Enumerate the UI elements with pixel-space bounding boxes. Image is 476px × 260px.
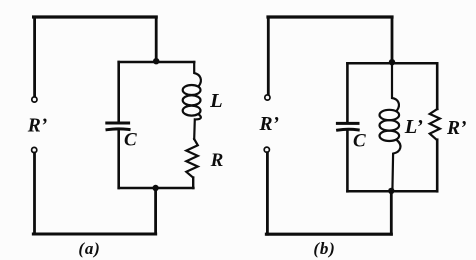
inductor L (a): bottom hook and exit wire [194,115,201,139]
inductor L (a): entry stub and top hook [194,62,201,86]
capacitor C bottom plate (b) [338,128,359,132]
terminal: lower open circle (a) [32,147,37,152]
node: bottom junction dot (a) [152,185,158,191]
inductor L (a): loop 2 [183,95,201,105]
svg-text:R’: R’ [258,114,279,135]
wire: left lower vertical (a) [33,153,36,234]
label (b) caption [313,239,335,258]
wire: right edge upper stub (b) [436,63,439,109]
svg-text:L: L [209,90,223,112]
label L (a) [209,90,223,112]
wire: left upper vertical (a) [33,17,36,96]
wire: inner box left edge lower (b) [346,131,349,191]
inductor L' (b): entry wire and top hook [392,63,399,110]
capacitor C bottom plate (a) [107,127,129,131]
wire: inner box bottom edge (b) [347,190,437,193]
wire: right edge lower stub (b) [436,140,439,192]
wire: resistor bottom stub (a) [192,178,194,189]
wire: top feed vertical (b) [391,17,394,63]
label R (a) [210,150,224,171]
wire: inner box left edge upper (b) [346,63,349,122]
wire: bottom feed vertical (b) [390,191,393,234]
svg-text:C: C [353,130,366,151]
node: bottom junction dot (b) [388,188,394,194]
label L' (b) [404,116,423,138]
inductor L' (b): loop 1 [380,110,400,120]
wire: inner box top edge (b) [347,62,437,65]
wire: inner box top edge (a) [119,61,195,64]
svg-text:(a): (a) [78,239,100,258]
svg-text:L’: L’ [404,116,423,138]
terminal: lower open circle (b) [264,147,269,152]
terminal: upper open circle (a) [32,97,37,102]
wire: bottom feed vertical (a) [154,188,157,234]
svg-text:R’: R’ [27,115,48,136]
node: top junction dot (b) [389,59,395,65]
svg-text:C: C [124,130,137,151]
label R' (b, load) [446,118,467,139]
svg-text:R’: R’ [446,118,467,139]
capacitor C top plate (a) [107,122,129,125]
wire: inner box left edge lower (a) [117,131,120,188]
wire: top rail (b) [268,15,392,18]
resistor R' (b) zigzag [430,109,440,140]
label C (b) [353,130,366,151]
inductor L' (b): bottom hook and exit wire [392,140,400,191]
label C (a) [124,130,137,151]
node: top junction dot (a) [153,58,159,64]
wire: left upper vertical (b) [267,17,270,94]
svg-text:R: R [210,150,224,171]
wire: bottom rail (b) [266,233,391,236]
label R' (b, source resistance) [258,114,279,135]
svg-text:(b): (b) [313,239,335,258]
resistor R (a) zigzag [186,139,198,178]
inductor L' (b): loop 3 [380,131,400,141]
label (a) caption [78,239,100,258]
wire: inner box bottom edge (a) [119,187,194,190]
capacitor C top plate (b) [337,122,358,125]
inductor L (a): loop 1 [183,85,201,95]
wire: top feed vertical (a) [155,17,158,62]
wire: inner box left edge upper (a) [117,62,120,121]
terminal: upper open circle (b) [265,95,270,100]
wire: bottom rail (a) [33,232,155,235]
inductor L (a): loop 3 [183,106,201,116]
inductor L' (b): loop 2 [380,120,400,130]
wire: top rail (a) [34,15,157,18]
label R' (a, source resistance) [27,115,48,136]
wire: left lower vertical (b) [266,153,269,235]
